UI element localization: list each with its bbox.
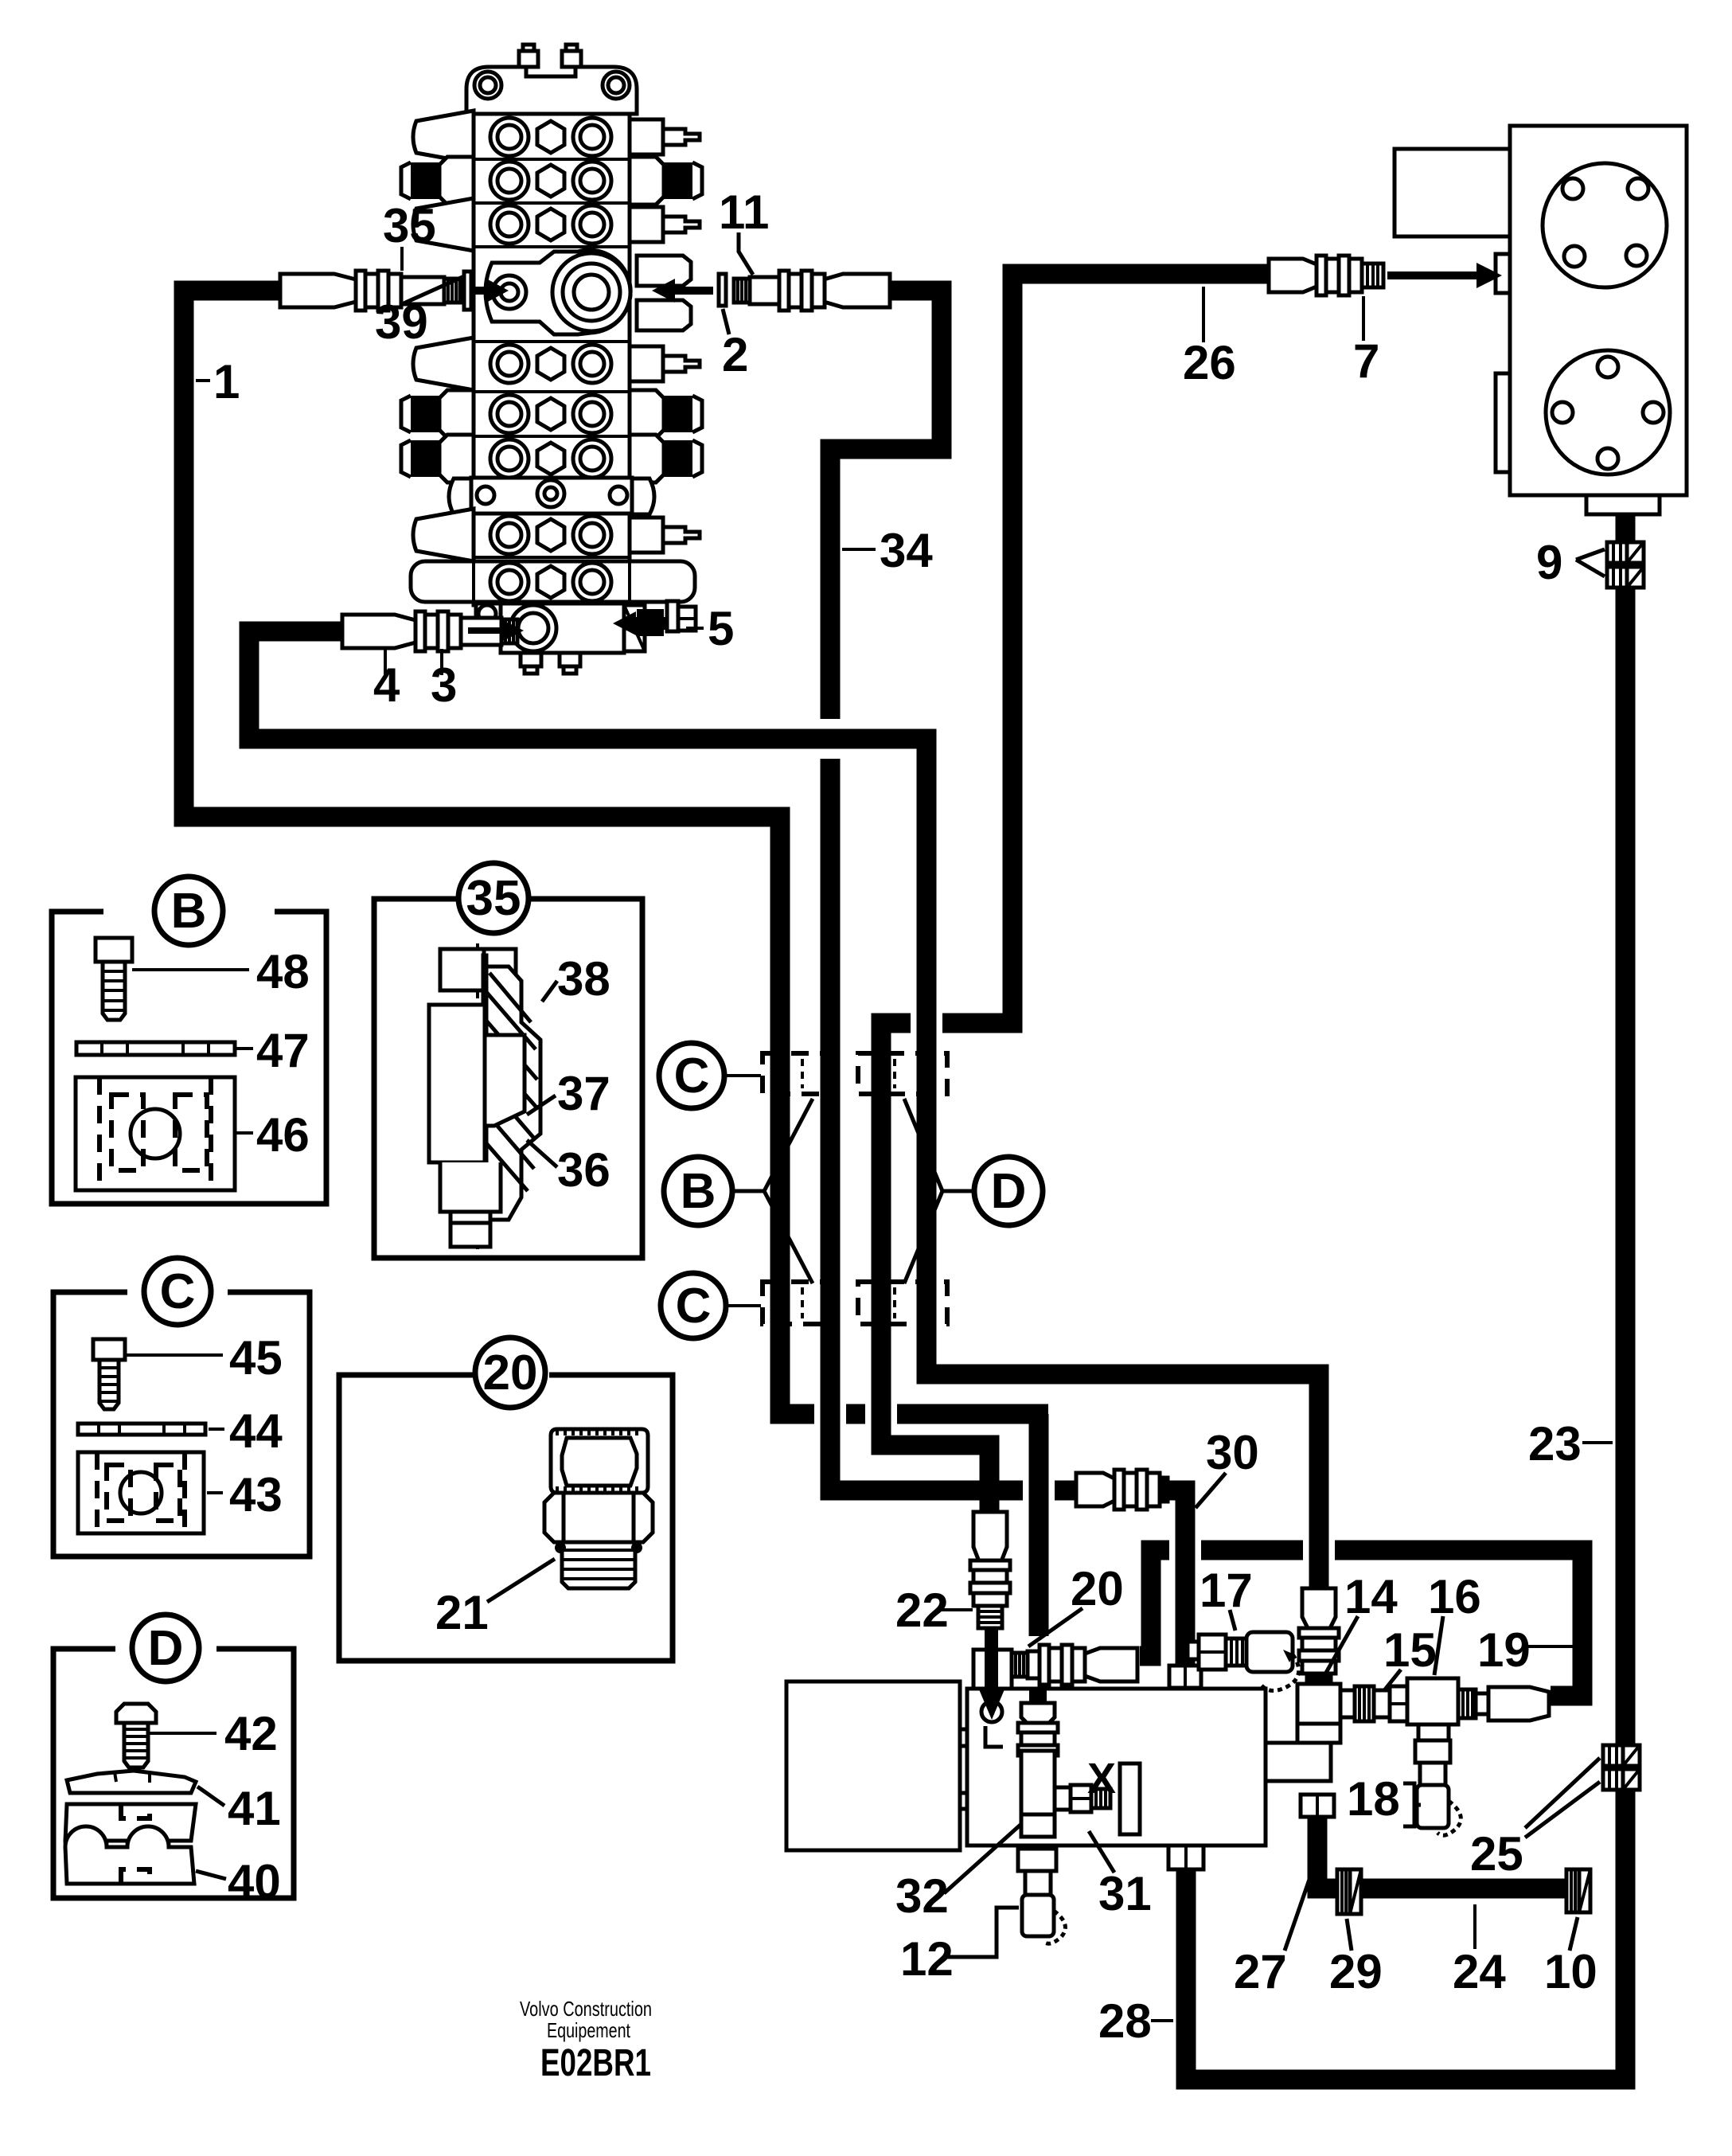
detail box 35 frame [374,899,642,1258]
svg-text:11: 11 [719,186,769,239]
valve port 2 (large boss) [552,253,630,331]
valve bottom spool section [411,561,695,602]
detail box 35 circle [458,863,529,933]
fitting 20 elbow chain into block boss [1012,1645,1137,1685]
svg-text:2: 2 [722,328,748,381]
tee 32 with fittings 31 and 12 on block X port [1018,1688,1140,1871]
clamp 29 on hose 24 [1337,1869,1361,1914]
pump left boss lower [1496,373,1510,472]
label 44 leader [209,1428,224,1431]
detail box B circle [154,877,223,945]
detail box C frame [53,1292,310,1556]
svg-text:27: 27 [1234,1945,1287,1998]
svg-text:48: 48 [256,945,310,998]
wire hose 23-28 (pump return down right side and back to block) [1186,510,1625,2080]
valve section row 5 left plug [401,390,474,438]
valve section row 6 ports [474,436,630,478]
saddle washer 41 [67,1771,196,1793]
svg-text:29: 29 [1329,1945,1383,1998]
label 42 leader [150,1732,216,1735]
svg-text:46: 46 [256,1108,310,1162]
detail box D frame [53,1649,294,1898]
valve section row 2 right plug [630,157,702,205]
svg-text:45: 45 [229,1331,283,1385]
wire hose 34 (valve port 2 down to fitting 30 and block X) [830,291,1185,1666]
coupling from tee 16 to hose 19 [1458,1687,1549,1721]
fitting 7 hose coupling [1269,256,1383,295]
fittings 15 between tees [1340,1686,1407,1721]
valve section row 7 ports [474,516,630,557]
callout circle D [904,1099,1043,1283]
fitting 30 coupling on hose 34 [1076,1470,1168,1510]
valve section row 7 left plug [413,509,474,561]
valve middle bracket plate [449,478,654,514]
svg-text:26: 26 [1183,336,1236,389]
svg-text:40: 40 [228,1855,281,1908]
label 43 leader [207,1491,223,1494]
seal washer 2 [719,274,726,306]
fitting 5 plug [667,601,696,631]
valve section row 1 left plug [413,111,474,163]
pump left attachment [1395,149,1510,236]
label 41 leader [197,1787,224,1806]
valve section row 2 ports [474,162,630,203]
bolt 42 hex head [116,1704,156,1767]
bolt 45 [93,1339,125,1409]
nut 27 under block right [1301,1795,1334,1817]
svg-text:3: 3 [431,658,457,712]
pump body [1510,126,1687,495]
svg-text:39: 39 [375,295,428,349]
svg-text:19: 19 [1477,1623,1531,1677]
pump top flange with bolt circle [1543,163,1667,287]
svg-text:5: 5 [708,602,734,655]
valve section row 3 right plug [630,207,700,242]
valve section row 6 left plug [401,435,474,482]
detail box 20 circle [475,1338,545,1408]
svg-text:28: 28 [1098,1994,1152,2048]
clamp 9 pair on pump hose [1607,542,1644,588]
svg-text:32: 32 [895,1869,949,1923]
wire hose 19 (tee 16 to fitting 20 elbow at block) [1140,1550,1582,1696]
svg-text:20: 20 [1071,1562,1124,1615]
pilot valve block [960,1689,1266,1845]
svg-text:C: C [674,1049,710,1103]
svg-text:15: 15 [1383,1623,1437,1677]
wire hose 1 (valve port 39 to tee on pilot block, via clamps) [184,291,1048,1636]
valve section row 6 right plug [630,435,702,482]
sectioned fitting 35 drawing [429,943,540,1250]
tee 16 coupling [1407,1678,1458,1763]
wire hose 26 (pump supply down, V5 to V3, to fitting 22) [881,274,1269,1514]
arrow 5 into lower valve right port [613,609,666,636]
valve section row 3 left plug [413,198,474,251]
pump bottom outlet tab [1586,495,1660,514]
svg-text:31: 31 [1098,1867,1152,1920]
fitting 18 test port with cap [1417,1763,1461,1835]
tee 14 coupling above block [1266,1588,1340,1781]
wire hose 27-24 (block bottom port to clamp 10) [1317,1817,1584,1888]
svg-text:18: 18 [1347,1772,1400,1826]
wire hose 4-3 (lower valve to clamp line V4 and fitting 14) [249,631,1319,1588]
fitting 4-3 hose coupling [342,611,517,651]
valve section row 4 right plug [630,346,700,381]
washer 47 [76,1042,235,1055]
valve section row 7 right plug [630,518,700,553]
fitting 21 drawing [544,1429,653,1588]
svg-text:37: 37 [557,1067,610,1120]
bolt 48 [96,938,132,1020]
valve top mounting bracket [466,45,637,114]
svg-text:12: 12 [900,1932,954,1986]
block boss for fitting 20 [973,1650,1012,1689]
svg-text:36: 36 [557,1143,610,1197]
valve section row 4 ports [474,342,630,383]
fitting 35 hose coupling [280,271,460,311]
svg-text:D: D [148,1621,184,1676]
svg-text:B: B [171,884,207,939]
clamp block 43 [78,1452,204,1533]
svg-text:1: 1 [213,355,240,408]
label 47 leader [236,1047,253,1050]
callout circle B [664,1099,813,1283]
valve port 39 (small) [493,275,526,309]
clamp halves 40 [65,1804,196,1884]
svg-text:E02BR1: E02BR1 [540,2042,651,2084]
fitting 17 capped test coupling [1188,1632,1299,1691]
valve section row 1 ports [474,118,630,159]
valve section row 4 left plug [413,338,474,390]
svg-text:43: 43 [229,1468,283,1521]
control valve block body [474,114,630,605]
detail box D circle [132,1615,199,1681]
svg-text:C: C [160,1264,196,1319]
svg-text:21: 21 [435,1586,489,1639]
clamp row upper dashed outline [763,1053,947,1094]
svg-text:24: 24 [1453,1945,1506,1998]
detail box 20 frame [339,1375,673,1661]
svg-text:22: 22 [895,1584,949,1637]
clamp pair 25 on hose 23 [1603,1745,1640,1790]
svg-text:16: 16 [1428,1570,1481,1623]
svg-text:X: X [1087,1755,1116,1803]
fitting 12 test port with cap [1022,1871,1065,1943]
arrow 7 into pump port [1387,263,1502,288]
arrow into port 39 [475,279,509,303]
svg-text:B: B [681,1164,716,1219]
svg-text:7: 7 [1353,334,1379,388]
detail box C circle [144,1258,211,1325]
fitting 22 vertical coupling [970,1512,1010,1628]
valve right side hex plugs [637,256,691,330]
svg-text:10: 10 [1544,1945,1597,1998]
arrow into lower valve port [468,619,524,642]
svg-text:25: 25 [1470,1827,1523,1881]
callout circle C lower [661,1273,761,1338]
valve section row 5 ports [474,392,630,433]
svg-text:23: 23 [1528,1417,1582,1471]
label 48 leader [132,968,249,971]
valve section row 2 left plug [401,157,474,205]
label 21 leader [487,1559,555,1602]
labels 38 37 36 [527,952,610,1197]
svg-text:44: 44 [229,1404,283,1458]
svg-text:35: 35 [383,199,436,252]
detail box B frame [52,912,326,1204]
nut 28 under block [1168,1845,1203,1869]
callout circle C upper [659,1043,761,1108]
pilot pump rectangle [786,1681,960,1850]
label 40 leader [196,1871,226,1879]
svg-text:42: 42 [224,1707,278,1760]
port L circle and arrow from fitting 22 [979,1628,1004,1747]
valve section row 3 ports [474,205,630,247]
pump bottom flange with bolt circle [1546,350,1670,475]
svg-text:41: 41 [228,1782,281,1835]
svg-text:14: 14 [1344,1570,1398,1623]
clamp 10 on hose 24 [1566,1869,1590,1912]
fitting 11 hose coupling [734,271,890,311]
label 45 leader [125,1353,223,1357]
svg-text:35: 35 [466,871,521,926]
svg-text:17: 17 [1200,1564,1253,1617]
arrow into port 2 [652,279,713,303]
svg-text:30: 30 [1206,1426,1259,1479]
valve section row 1 right plug [630,119,700,154]
svg-text:20: 20 [483,1346,538,1400]
svg-text:34: 34 [880,524,933,577]
svg-text:Volvo Construction: Volvo Construction [520,1997,652,2021]
svg-text:38: 38 [557,952,610,1006]
svg-text:Equipement: Equipement [547,2018,631,2042]
svg-text:C: C [676,1279,712,1334]
seal washer 39 [464,271,471,310]
svg-text:9: 9 [1536,536,1562,589]
svg-text:D: D [991,1164,1027,1219]
clamp block 46 [76,1077,235,1190]
clamp row lower dashed outline [763,1282,947,1324]
svg-text:47: 47 [256,1024,310,1077]
washer 44 [78,1424,205,1435]
label 46 leader [236,1131,253,1135]
nut of hose 30 at block top [1169,1666,1201,1688]
valve inlet section boss plate [486,250,630,334]
lower valve block [476,603,645,674]
valve section row 5 right plug [630,390,702,438]
pump left port boss upper [1496,254,1510,293]
